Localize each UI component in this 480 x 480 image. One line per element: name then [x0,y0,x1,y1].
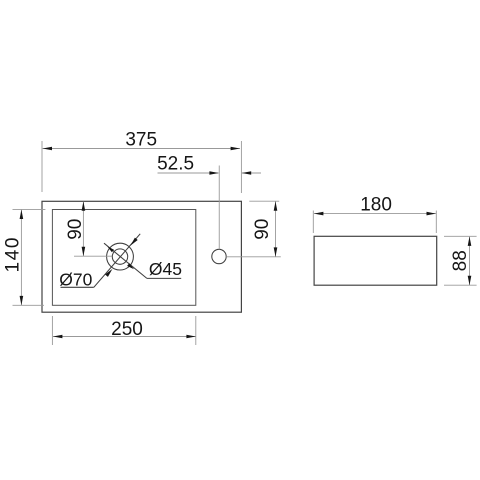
dimension 90 left: top arrow [82,201,86,210]
dimension 90 left: dimension line [82,202,84,256]
dimension 180: left arrow [314,212,323,216]
dimension 90 right: bottom extension line from faucet [226,256,281,258]
drain leader Ø70: NE arrow pointing SW [130,238,137,246]
drain leader Ø45: underline [147,277,181,279]
dimension 250: left extension line [51,316,53,345]
dimension 88: top extension line [444,235,477,237]
dimension 180: dimension line [314,213,436,215]
faucet centerline (52.5 extension) [218,166,220,250]
dimension 88: dimension line [469,237,471,285]
dimension 88: bottom arrow [468,276,472,285]
svg-text:88: 88 [450,250,471,271]
svg-text:Ø70: Ø70 [59,270,92,290]
svg-text:250: 250 [111,319,143,340]
dimension 375: extension line left [41,141,43,192]
drain leader Ø45: diagonal line through center [104,243,147,278]
dimension 52.5: right tail [242,172,261,174]
dimension 90 left: center extension line to drain [74,255,112,257]
dimension 250: right arrow [186,335,195,339]
svg-text:Ø45: Ø45 [149,259,182,279]
dimension 375: dimension line [43,148,240,150]
dimension 180: right extension line [435,211,437,234]
drain outer circle (Ø70) [107,243,134,270]
dimension 90 right: dimension line [275,201,277,256]
dimension 90 right: top extension line [249,200,279,202]
dimension 375: right arrow [231,147,240,151]
dimension 52.5: right arrow pointing left [242,171,251,175]
dimension 88: top arrow [468,237,472,246]
inner bowl rectangle [52,210,195,306]
drain leader Ø70: diagonal line through center [94,234,140,287]
dimension 140: bottom arrow [20,296,24,305]
svg-text:52.5: 52.5 [157,154,194,175]
dimension 250: dimension line [53,336,196,338]
side view rectangle [314,236,437,285]
dimension 180: right arrow [427,212,436,216]
dimension 140: dimension line [20,210,22,305]
dimension 88: bottom extension line [444,284,477,286]
dimension 52.5: left tail [158,172,219,174]
svg-text:90: 90 [252,219,273,240]
dimension 250: right extension line [195,316,197,345]
drain leader Ø45: SE arrow pointing SE [127,263,134,269]
dimension 52.5: left arrow pointing right [209,171,218,175]
drain leader Ø45: NW arrow pointing NW [107,246,114,252]
dimension 90 right: top arrow [274,201,278,210]
drain leader Ø70: SW arrow pointing NE [105,269,112,277]
svg-text:140: 140 [3,236,24,273]
dimension 140: bottom extension line [13,304,45,306]
outer rim of basin (top view) [42,201,241,312]
dimension 140: top extension line [13,208,46,210]
dimension 180: left extension line [312,211,314,234]
dimension 375: extension line right [240,141,242,193]
faucet hole circle [212,249,226,263]
dimension 90 right: bottom arrow [274,247,278,256]
svg-text:90: 90 [65,219,86,240]
drain inner circle (Ø45) [112,249,127,264]
dimension 90 left: bottom arrow [82,247,86,256]
dimension 375: left arrow [43,147,52,151]
drain leader Ø70: underline [61,286,94,288]
svg-text:375: 375 [125,130,157,151]
dimension 250: left arrow [53,335,62,339]
dimension 140: top arrow [20,210,24,219]
svg-text:180: 180 [360,195,392,216]
